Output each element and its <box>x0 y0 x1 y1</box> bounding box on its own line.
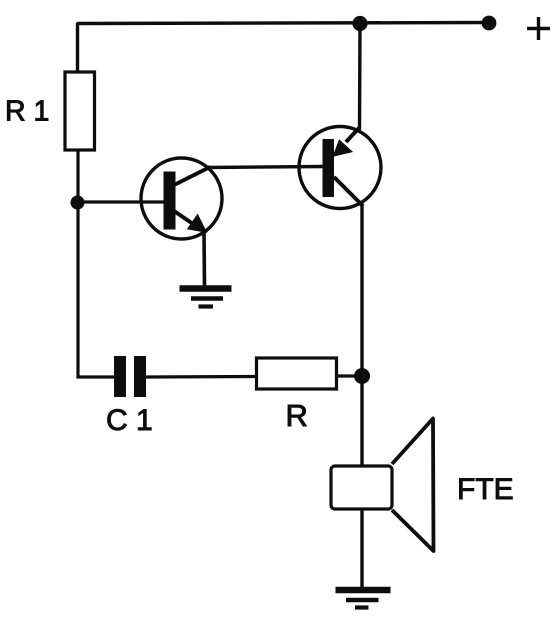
transistor Q1 <box>141 158 222 239</box>
ground below speaker <box>336 590 391 608</box>
svg-text:R 1: R 1 <box>5 96 49 128</box>
wire R1 bottom down left rail to capacitor <box>78 150 114 377</box>
svg-text:R: R <box>286 398 308 433</box>
resistor R1 <box>65 72 95 150</box>
wire output node down to speaker <box>360 376 363 467</box>
speaker FTE <box>331 419 434 552</box>
wire supply junction down to Q2 emitter <box>358 24 362 131</box>
wire top supply rail <box>77 23 489 25</box>
node base junction <box>71 196 85 210</box>
wire junction to Q1 base <box>78 200 166 203</box>
wire resistor R to output node <box>337 374 362 377</box>
svg-text:C 1: C 1 <box>106 404 153 437</box>
resistor R <box>257 358 337 389</box>
wire from rail down to R1 <box>76 23 79 73</box>
capacitor C1 <box>114 356 146 397</box>
ground under Q1 <box>180 289 232 307</box>
svg-text:FTE: FTE <box>457 473 514 506</box>
node output junction <box>354 368 370 384</box>
node supply terminal <box>482 16 497 31</box>
transistor Q2 <box>299 127 381 209</box>
wire Q1 emitter down to ground <box>202 230 206 288</box>
wire Q1 collector to Q2 base <box>208 167 324 168</box>
wire speaker to ground <box>360 509 363 589</box>
node junction on supply rail <box>352 16 367 31</box>
wire Q2 collector down to output node <box>360 205 363 376</box>
label + supply <box>527 17 550 40</box>
wire capacitor to resistor R <box>146 375 257 379</box>
